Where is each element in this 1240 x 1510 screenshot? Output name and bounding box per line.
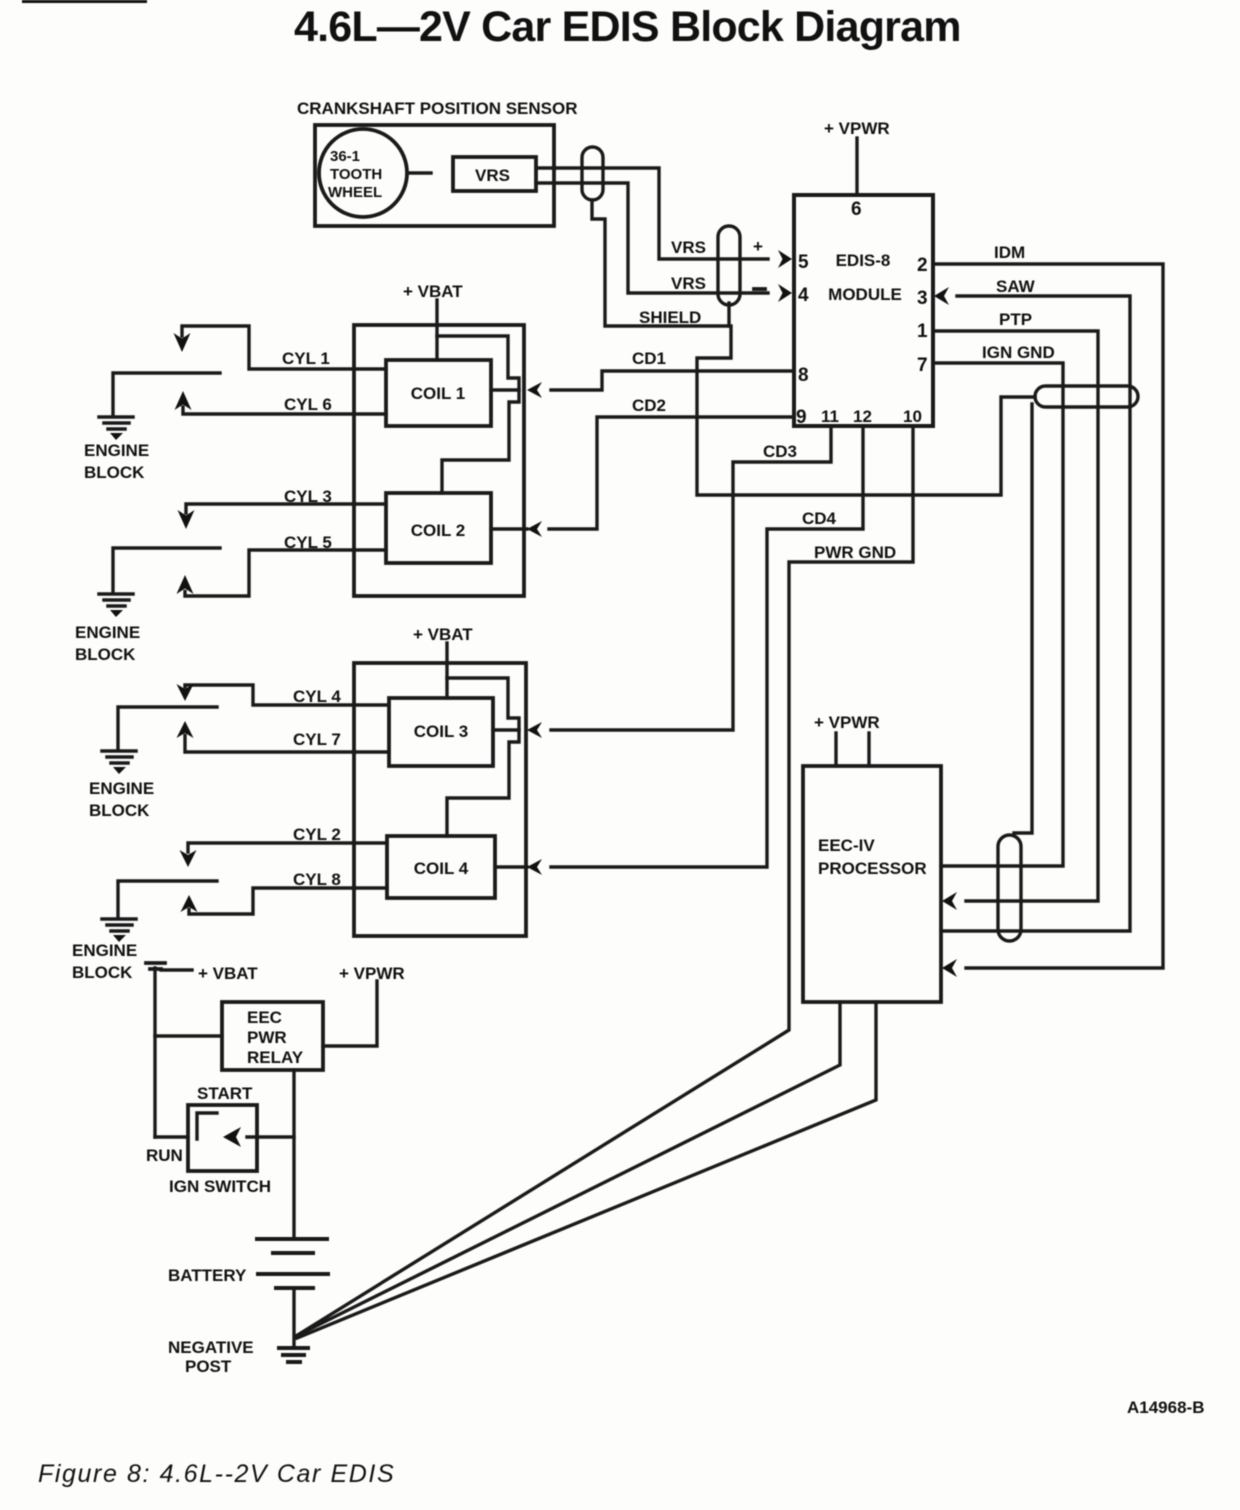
wire EEC-IV bottom pin B to negative post bbox=[297, 1002, 876, 1338]
svg-text:10: 10 bbox=[903, 407, 922, 426]
battery + terminal tap bbox=[146, 963, 165, 969]
wire CYL4 bbox=[185, 685, 389, 705]
svg-text:12: 12 bbox=[853, 407, 872, 426]
oval stub to shield bbox=[727, 303, 730, 326]
svg-text:NEGATIVE: NEGATIVE bbox=[168, 1338, 254, 1357]
svg-text:CD3: CD3 bbox=[763, 442, 797, 461]
svg-text:Figure 8: 4.6L--2V Car EDIS: Figure 8: 4.6L--2V Car EDIS bbox=[38, 1460, 395, 1488]
svg-text:COIL 3: COIL 3 bbox=[414, 722, 468, 741]
wire CYL8 bbox=[189, 888, 387, 914]
spark gap arrow CYL2 (down) bbox=[180, 850, 197, 867]
svg-text:RUN: RUN bbox=[146, 1146, 183, 1165]
svg-text:4: 4 bbox=[798, 285, 809, 306]
arrow PTP into EEC-IV bbox=[942, 892, 957, 910]
spark gap arrow CYL3 (down) bbox=[178, 510, 195, 529]
electrode plate 2 bbox=[113, 548, 220, 592]
wire IDM: pin2 to EEC-IV bbox=[933, 264, 1163, 968]
EDIS-8 module U1 bbox=[794, 195, 933, 426]
svg-text:WHEEL: WHEEL bbox=[328, 184, 382, 201]
svg-text:START: START bbox=[197, 1084, 253, 1103]
svg-text:EDIS-8: EDIS-8 bbox=[836, 251, 891, 270]
wire CYL5 bbox=[185, 550, 386, 596]
spark gap arrow CYL7 (up) bbox=[177, 721, 194, 738]
svg-text:COIL 2: COIL 2 bbox=[411, 521, 465, 540]
electrode plate 3 bbox=[118, 707, 217, 749]
wire: start feed into switch bbox=[247, 1135, 294, 1138]
electrode plate 4 bbox=[118, 881, 217, 917]
svg-text:CD1: CD1 bbox=[632, 349, 666, 368]
ground: engine block 2 bbox=[99, 594, 133, 617]
wire CD2: pin9 to coil2 bbox=[549, 417, 794, 529]
svg-text:CYL 8: CYL 8 bbox=[293, 870, 341, 889]
coil C2 bbox=[386, 493, 491, 563]
svg-text:ENGINE: ENGINE bbox=[84, 441, 149, 460]
arrow into pin 4 bbox=[778, 284, 792, 302]
ground: engine block 4 bbox=[102, 919, 136, 942]
twisted-pair oval at module bbox=[718, 226, 740, 305]
shield wire bbox=[592, 200, 1035, 495]
wire CD3: pin11 to coil3 bbox=[551, 426, 831, 730]
svg-text:CRANKSHAFT POSITION SENSOR: CRANKSHAFT POSITION SENSOR bbox=[297, 99, 578, 118]
spark gap arrow CYL1 (down) bbox=[174, 333, 191, 352]
arrow CD1 into coil1 bbox=[527, 382, 542, 398]
svg-text:BLOCK: BLOCK bbox=[84, 463, 145, 482]
battery B1 bbox=[257, 1239, 328, 1288]
arrow CD3 into coil3 bbox=[527, 722, 542, 738]
coil pack 1 outer box bbox=[354, 325, 524, 596]
svg-text:SHIELD: SHIELD bbox=[639, 308, 701, 327]
wire VPWR stub 2 bbox=[867, 733, 870, 766]
svg-text:IDM: IDM bbox=[994, 243, 1025, 262]
svg-text:CYL 1: CYL 1 bbox=[282, 349, 330, 368]
svg-text:+ VPWR: + VPWR bbox=[814, 713, 880, 732]
svg-text:PWR: PWR bbox=[247, 1028, 287, 1047]
svg-text:POST: POST bbox=[185, 1357, 232, 1376]
arrow CD2 into coil2 bbox=[527, 521, 542, 537]
svg-text:CYL 7: CYL 7 bbox=[293, 730, 341, 749]
svg-text:CD2: CD2 bbox=[632, 396, 666, 415]
EEC PWR relay K1 bbox=[222, 1002, 323, 1070]
svg-text:CYL 5: CYL 5 bbox=[284, 533, 332, 552]
wire PTP: pin1 to EEC-IV bbox=[933, 331, 1098, 901]
spark gap arrow CYL4 (down) bbox=[177, 684, 194, 701]
wire: VRS- to pin 4 bbox=[536, 183, 768, 293]
svg-text:IGN SWITCH: IGN SWITCH bbox=[169, 1177, 271, 1196]
svg-text:CYL 4: CYL 4 bbox=[293, 687, 341, 706]
svg-text:CYL 2: CYL 2 bbox=[293, 825, 341, 844]
wire IGN GND: pin7 to EEC-IV bbox=[933, 363, 1063, 866]
svg-text:RELAY: RELAY bbox=[247, 1048, 304, 1067]
svg-text:+ VBAT: + VBAT bbox=[198, 964, 258, 983]
svg-text:BLOCK: BLOCK bbox=[89, 801, 150, 820]
svg-text:BATTERY: BATTERY bbox=[168, 1266, 247, 1285]
svg-text:BLOCK: BLOCK bbox=[72, 963, 133, 982]
ground: engine block 3 bbox=[102, 751, 136, 774]
minus sign bbox=[754, 287, 765, 291]
wire CYL6 bbox=[183, 407, 386, 414]
wire: VBAT rail down to RUN bbox=[153, 968, 156, 1137]
shield oval (horizontal) bbox=[1035, 386, 1138, 407]
wire: terminal to +VBAT label bbox=[161, 968, 192, 971]
svg-text:IGN GND: IGN GND bbox=[982, 343, 1055, 362]
svg-text:EEC: EEC bbox=[247, 1008, 282, 1027]
wire CYL3 bbox=[186, 504, 386, 513]
wire CD1: pin8 to coil1 bbox=[551, 371, 794, 390]
svg-text:ENGINE: ENGINE bbox=[72, 941, 137, 960]
svg-text:11: 11 bbox=[821, 407, 839, 426]
electrode plate 1 bbox=[113, 373, 220, 415]
svg-text:7: 7 bbox=[917, 355, 928, 376]
ignition switch S1 bbox=[188, 1105, 257, 1171]
svg-text:BLOCK: BLOCK bbox=[75, 645, 136, 664]
ground: engine block 1 bbox=[99, 417, 133, 440]
switch contact bbox=[197, 1113, 217, 1139]
svg-text:ENGINE: ENGINE bbox=[75, 623, 140, 642]
svg-text:+ VBAT: + VBAT bbox=[403, 282, 463, 301]
scan artifact top-left bbox=[22, 0, 147, 3]
coil1 HT terminal stub bbox=[491, 388, 519, 391]
svg-text:+ VPWR: + VPWR bbox=[824, 119, 890, 138]
wire: VBAT loop to coil2 primary bbox=[437, 336, 519, 493]
coil C4 bbox=[387, 836, 495, 898]
wire: relay to battery bbox=[292, 1070, 295, 1239]
shield drop wire to lower oval bbox=[1014, 404, 1032, 833]
EEC-IV processor U2 bbox=[803, 766, 941, 1002]
svg-text:1: 1 bbox=[917, 321, 928, 342]
coil C1 bbox=[386, 360, 491, 426]
wire: battery minus to post bbox=[292, 1288, 295, 1347]
ground: negative post bbox=[279, 1348, 308, 1362]
svg-text:PTP: PTP bbox=[999, 310, 1032, 329]
svg-text:COIL 4: COIL 4 bbox=[414, 859, 469, 878]
svg-text:3: 3 bbox=[917, 288, 928, 309]
wire EEC-IV bottom pin A to negative post bbox=[296, 1002, 840, 1336]
svg-text:CD4: CD4 bbox=[802, 509, 837, 528]
svg-text:A14968-B: A14968-B bbox=[1127, 1398, 1205, 1417]
svg-text:PROCESSOR: PROCESSOR bbox=[818, 859, 927, 878]
svg-text:36-1: 36-1 bbox=[330, 148, 360, 165]
arrow IDM into EEC-IV bbox=[942, 959, 957, 977]
svg-text:4.6L—2V Car EDIS Block Diagram: 4.6L—2V Car EDIS Block Diagram bbox=[294, 3, 961, 51]
svg-text:VRS: VRS bbox=[671, 274, 706, 293]
wire: VPWR to pin 6 bbox=[855, 138, 858, 195]
svg-text:VRS: VRS bbox=[671, 238, 706, 257]
coil4 terminal stub bbox=[495, 865, 527, 868]
wire: relay output to VPWR bbox=[323, 981, 377, 1046]
svg-text:PWR GND: PWR GND bbox=[814, 543, 896, 562]
svg-text:CYL 3: CYL 3 bbox=[284, 487, 332, 506]
arrow into switch bbox=[223, 1127, 241, 1147]
svg-text:+ VPWR: + VPWR bbox=[339, 964, 405, 983]
svg-text:5: 5 bbox=[798, 252, 809, 273]
svg-text:EEC-IV: EEC-IV bbox=[818, 836, 875, 855]
36-1 tooth wheel bbox=[319, 129, 407, 217]
crankshaft position sensor box bbox=[315, 125, 554, 226]
coil C3 bbox=[389, 698, 493, 766]
wire: wheel to VRS bbox=[409, 171, 431, 174]
svg-text:TOOTH: TOOTH bbox=[330, 166, 382, 183]
wire VPWR stub 1 bbox=[834, 733, 837, 766]
wire VBAT into coil3 bbox=[445, 643, 448, 698]
coil3 HT terminal stub bbox=[493, 728, 519, 731]
svg-text:VRS: VRS bbox=[475, 166, 510, 185]
svg-text:8: 8 bbox=[798, 365, 809, 386]
shield oval (vertical, at EEC-IV) bbox=[998, 835, 1021, 941]
arrow CD4 into coil4 bbox=[527, 859, 542, 875]
wire: VRS+ to pin 5 bbox=[536, 168, 768, 259]
spark gap arrow CYL5 (up) bbox=[177, 575, 194, 594]
wire SAW: EEC-IV to pin3 bbox=[941, 296, 1130, 931]
spark gap arrow CYL6 (up) bbox=[175, 391, 192, 410]
wire CYL7 bbox=[185, 736, 389, 753]
svg-text:ENGINE: ENGINE bbox=[89, 779, 154, 798]
svg-text:2: 2 bbox=[917, 255, 928, 276]
svg-text:6: 6 bbox=[851, 199, 862, 220]
wire: VBAT loop to coil4 primary bbox=[447, 678, 519, 836]
wire PWR GND: pin10 to negative post bbox=[296, 426, 913, 1336]
coil2 terminal stub bbox=[491, 527, 527, 530]
svg-text:CYL 6: CYL 6 bbox=[284, 395, 332, 414]
arrow SAW into pin 3 bbox=[934, 287, 949, 305]
wire: rail to relay bbox=[155, 1034, 222, 1037]
svg-text:COIL 1: COIL 1 bbox=[411, 384, 465, 403]
spark gap arrow CYL8 (up) bbox=[181, 895, 198, 912]
wire CYL1 bbox=[182, 326, 386, 369]
svg-text:9: 9 bbox=[796, 407, 807, 428]
VRS sensor box bbox=[453, 157, 536, 191]
svg-text:+ VBAT: + VBAT bbox=[413, 625, 473, 644]
svg-text:SAW: SAW bbox=[996, 277, 1036, 296]
coil pack 2 outer box bbox=[354, 663, 526, 936]
svg-text:+: + bbox=[753, 237, 763, 256]
wire VBAT into coil1 bbox=[435, 300, 438, 360]
wire CD4: pin12 to coil4 bbox=[551, 426, 863, 867]
wire: RUN to switch bbox=[155, 1135, 188, 1138]
svg-text:MODULE: MODULE bbox=[828, 285, 902, 304]
arrow into pin 5 bbox=[778, 250, 792, 268]
twisted-pair oval at sensor bbox=[582, 147, 603, 200]
wire CYL2 bbox=[188, 843, 387, 852]
